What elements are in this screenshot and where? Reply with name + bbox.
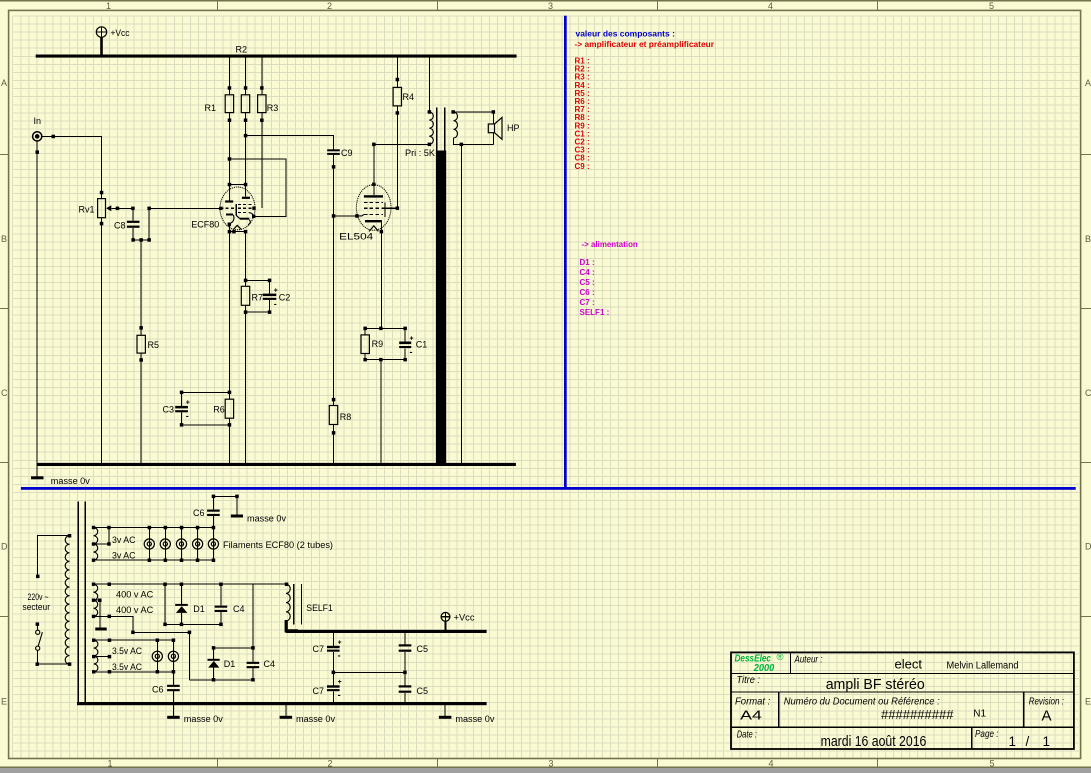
wire secondary top to HP bbox=[453, 112, 493, 124]
B+ thick line bbox=[286, 630, 487, 633]
svg-text:+: + bbox=[410, 335, 414, 342]
svg-text:+: + bbox=[338, 640, 342, 647]
text: alimentation component list bbox=[580, 258, 610, 317]
text 3v AC labels bbox=[112, 535, 136, 561]
wire ECF80 triode cathode down to R6 bbox=[228, 232, 230, 393]
svg-text:masse 0v: masse 0v bbox=[184, 714, 224, 724]
wire R6 bottom to ground bbox=[228, 425, 230, 465]
svg-text:3v AC: 3v AC bbox=[112, 551, 136, 561]
svg-text:+Vcc: +Vcc bbox=[454, 613, 476, 623]
node In connector bbox=[33, 116, 42, 141]
wire C3 R6 top link bbox=[180, 391, 231, 395]
wire Rv1 bottom to ground bbox=[101, 224, 103, 465]
svg-text:3: 3 bbox=[548, 1, 553, 11]
capacitor C5 lower bbox=[399, 685, 428, 703]
svg-text:+: + bbox=[274, 287, 278, 294]
potentiometer Rv1 bbox=[79, 191, 118, 226]
ruler letters right bbox=[1085, 78, 1091, 707]
ground masse 0v supply middle bbox=[280, 705, 336, 724]
svg-text:C3: C3 bbox=[163, 405, 175, 415]
logo DessElec 2000 bbox=[735, 652, 784, 674]
svg-text:R5: R5 bbox=[148, 340, 160, 350]
filament lamps ECF80 bbox=[144, 526, 218, 562]
capacitor C4 lower bbox=[247, 659, 275, 682]
title block Auteur cell bbox=[794, 654, 1019, 672]
ground masse 0v main bbox=[31, 466, 90, 486]
svg-text:C4: C4 bbox=[264, 659, 276, 669]
svg-text:C2: C2 bbox=[279, 293, 291, 303]
svg-text:2: 2 bbox=[327, 759, 332, 769]
capacitor C8 bbox=[114, 208, 140, 240]
transformer T1 primary wire from bus bbox=[428, 58, 432, 114]
capacitor C6 lower bbox=[152, 672, 180, 704]
svg-text:C5 :: C5 : bbox=[580, 278, 595, 287]
text 3.5v AC labels bbox=[112, 646, 142, 672]
svg-text:EL504: EL504 bbox=[339, 232, 373, 242]
ground bus supply section bbox=[77, 702, 487, 705]
ruler ticks right bbox=[1081, 154, 1091, 616]
sheet top edge line bbox=[0, 0, 1091, 2]
tube U1 ECF80 bbox=[191, 185, 255, 232]
svg-text:N1: N1 bbox=[973, 709, 986, 720]
svg-text:mardi 16 août 2016: mardi 16 août 2016 bbox=[821, 734, 927, 750]
svg-text:SELF1 :: SELF1 : bbox=[580, 308, 610, 317]
svg-text:400 v AC: 400 v AC bbox=[116, 605, 154, 615]
svg-text:-> alimentation: -> alimentation bbox=[582, 240, 638, 249]
+Vcc symbol top bbox=[96, 27, 130, 55]
ruler ticks left bbox=[0, 154, 9, 616]
svg-text:elect: elect bbox=[895, 657, 923, 672]
wire rectifier 1 bottom rail bbox=[165, 623, 221, 625]
svg-text:A: A bbox=[1042, 708, 1052, 725]
svg-text:C6 :: C6 : bbox=[580, 288, 595, 297]
svg-text:secteur: secteur bbox=[23, 602, 51, 612]
ruler letters left bbox=[1, 78, 8, 707]
svg-text:3.5v AC: 3.5v AC bbox=[112, 646, 142, 656]
svg-text:B: B bbox=[1, 234, 7, 244]
svg-text:##########: ########## bbox=[881, 707, 954, 722]
svg-text:ampli BF stéréo: ampli BF stéréo bbox=[826, 676, 925, 693]
svg-text:Date :: Date : bbox=[737, 729, 757, 741]
wire speaker return to ground bbox=[460, 144, 462, 464]
switch S1 mains bbox=[36, 622, 43, 650]
svg-text:3v AC: 3v AC bbox=[112, 535, 136, 545]
transformer T1 core bbox=[436, 108, 446, 465]
svg-text:C: C bbox=[1085, 388, 1091, 398]
wire rectifier 2 bottom rail bbox=[189, 679, 253, 681]
svg-text:R4: R4 bbox=[403, 92, 415, 102]
svg-text:C1: C1 bbox=[416, 340, 428, 350]
title block Format cell bbox=[735, 696, 770, 723]
title block frame bbox=[731, 652, 1074, 749]
wire C7 C5 link bbox=[333, 671, 406, 675]
transformer T2 primary coil bbox=[65, 536, 69, 664]
capacitor C5 upper bbox=[399, 633, 428, 685]
svg-text:C4 :: C4 : bbox=[580, 268, 595, 277]
wire triode plate to pentode link bbox=[228, 183, 248, 187]
svg-text:masse 0v: masse 0v bbox=[51, 476, 91, 486]
capacitor C9 bbox=[327, 148, 352, 158]
ground masse 0v supply right bbox=[439, 705, 495, 724]
title block Titre cell bbox=[737, 674, 925, 693]
svg-text:C9: C9 bbox=[341, 148, 353, 158]
svg-text:Numéro du Document ou Référenc: Numéro du Document ou Référence : bbox=[784, 696, 940, 708]
wire ECF80 cathode rail bbox=[228, 230, 248, 234]
text 400v AC labels bbox=[116, 590, 154, 616]
resistor R7 bbox=[241, 286, 263, 314]
wire C2 bottom link bbox=[246, 300, 272, 314]
resistor R3 bbox=[258, 58, 279, 209]
transformer T2 core bbox=[78, 502, 85, 703]
filament lamps EL504 bbox=[152, 639, 178, 674]
capacitor C1 bbox=[399, 328, 427, 359]
svg-text:Melvin Lallemand: Melvin Lallemand bbox=[947, 661, 1019, 672]
svg-text:masse 0v: masse 0v bbox=[455, 714, 495, 724]
transformer T2 winding 400v bbox=[92, 583, 102, 619]
wire mains top bbox=[36, 534, 71, 578]
wire 3v top rail bbox=[94, 526, 214, 530]
svg-text:+: + bbox=[186, 400, 190, 407]
tube U2 EL504 bbox=[339, 183, 397, 242]
svg-text:3: 3 bbox=[548, 759, 553, 769]
svg-text:5: 5 bbox=[989, 1, 994, 11]
wire R9 C1 bottom link bbox=[363, 358, 407, 362]
transformer T1 primary coil bbox=[405, 112, 435, 158]
svg-text:Auteur :: Auteur : bbox=[794, 654, 823, 666]
svg-text:2000: 2000 bbox=[753, 663, 775, 674]
wire 3.5v top rail bbox=[94, 639, 174, 643]
svg-text:-: - bbox=[338, 690, 341, 700]
resistor R9 capacitor C1 top link bbox=[363, 327, 407, 331]
wire Rv1 wiper bbox=[116, 207, 135, 211]
svg-text:C5: C5 bbox=[417, 686, 429, 696]
svg-text:A4: A4 bbox=[740, 708, 762, 723]
svg-text:E: E bbox=[1, 697, 7, 707]
svg-text:R8: R8 bbox=[340, 412, 352, 422]
ground masse 0v near C6 bbox=[231, 496, 287, 523]
ground bus main section bbox=[37, 463, 516, 466]
svg-text:A: A bbox=[1, 78, 7, 88]
svg-text:400 v AC: 400 v AC bbox=[116, 590, 154, 600]
svg-text:In: In bbox=[34, 116, 42, 126]
svg-text:1: 1 bbox=[107, 759, 112, 769]
node 220v secteur label bbox=[23, 592, 51, 612]
svg-text:/: / bbox=[1026, 734, 1030, 749]
ruler numbers bottom bbox=[107, 759, 994, 769]
text: valeur des composants header bbox=[576, 29, 675, 38]
svg-text:HP: HP bbox=[507, 123, 520, 133]
wire ECF80 pentode cathode down to R7 bbox=[244, 232, 248, 287]
svg-text:R7: R7 bbox=[252, 293, 264, 303]
wire EL504 g2 to R4 bbox=[396, 206, 400, 210]
svg-text:Pri : 5K: Pri : 5K bbox=[405, 148, 435, 158]
svg-text:-: - bbox=[274, 299, 277, 309]
svg-text:R9: R9 bbox=[372, 339, 384, 349]
svg-text:C7: C7 bbox=[313, 644, 325, 654]
svg-text:D: D bbox=[1085, 542, 1091, 552]
wire HP bottom bbox=[492, 133, 494, 145]
wire In down to ground bbox=[36, 141, 40, 465]
wire In to Rv1 top bbox=[42, 135, 102, 193]
wire C3 R6 bottom link bbox=[180, 423, 231, 427]
speaker HP bbox=[488, 117, 519, 139]
wire R7 C2 top link bbox=[246, 279, 272, 294]
ground masse 0v supply left bbox=[167, 705, 223, 724]
svg-text:1: 1 bbox=[106, 1, 111, 11]
svg-text:-: - bbox=[338, 651, 341, 661]
svg-text:R1: R1 bbox=[205, 103, 217, 113]
capacitor C7 upper bbox=[313, 633, 342, 685]
svg-text:4: 4 bbox=[768, 759, 773, 769]
svg-text:D1: D1 bbox=[193, 604, 205, 614]
diode D1 upper bbox=[175, 583, 205, 627]
rectifier cell 2 top rail bbox=[212, 646, 255, 650]
svg-text:ECF80: ECF80 bbox=[191, 220, 219, 230]
blue separator vertical bbox=[564, 16, 567, 488]
svg-text:C5: C5 bbox=[417, 644, 429, 654]
+Vcc symbol bottom bbox=[441, 612, 475, 629]
svg-text:C: C bbox=[1, 388, 8, 398]
svg-text:Revision :: Revision : bbox=[1029, 696, 1064, 708]
resistor R8 bbox=[329, 406, 351, 425]
resistor R2 bbox=[236, 45, 250, 185]
svg-text:+Vcc: +Vcc bbox=[111, 28, 130, 38]
title block Revision cell bbox=[1029, 696, 1064, 725]
svg-text:D1 :: D1 : bbox=[580, 258, 595, 267]
capacitor C6 upper bbox=[193, 495, 239, 528]
transformer T2 winding 3.5v bbox=[92, 639, 111, 674]
svg-text:Titre :: Titre : bbox=[737, 674, 761, 686]
svg-text:Rv1: Rv1 bbox=[79, 205, 95, 215]
resistor R4 bbox=[393, 58, 414, 209]
wire mains bottom bbox=[36, 650, 72, 666]
svg-text:1: 1 bbox=[1043, 734, 1051, 749]
transformer T1 secondary coil bbox=[451, 110, 495, 146]
ruler ticks bottom bbox=[217, 759, 877, 768]
svg-text:valeur des composants :: valeur des composants : bbox=[576, 29, 675, 38]
wire 400v bottom rail to rectifier 2 bbox=[94, 615, 192, 680]
text: amplifier component list R1-C9 bbox=[575, 57, 590, 171]
rectifier cell 1 left riser bbox=[163, 583, 167, 627]
svg-text:220v ~: 220v ~ bbox=[28, 592, 49, 602]
wire cathode network to ground bbox=[380, 360, 382, 465]
capacitor C4 lower riser bbox=[252, 584, 254, 662]
svg-text:Format :: Format : bbox=[735, 696, 770, 708]
svg-text:Filaments ECF80 (2 tubes): Filaments ECF80 (2 tubes) bbox=[223, 540, 333, 550]
wire 400v top rail to SELF1 bbox=[94, 583, 287, 587]
svg-text:R6: R6 bbox=[213, 405, 225, 415]
capacitor C7 lower bbox=[313, 679, 342, 703]
text: amplificateur section header bbox=[575, 40, 715, 49]
wire 3.5v bottom rail bbox=[94, 670, 174, 674]
wire C8 bottom link bbox=[131, 207, 151, 242]
svg-text:B: B bbox=[1085, 234, 1091, 244]
sheet bottom gray strip bbox=[0, 768, 1091, 773]
svg-text:5: 5 bbox=[989, 759, 994, 769]
svg-text:4: 4 bbox=[768, 1, 773, 11]
text Filaments ECF80 bbox=[223, 540, 333, 550]
wire 3v bottom rail bbox=[94, 559, 214, 561]
svg-text:-> amplificateur et préamplifi: -> amplificateur et préamplificateur bbox=[575, 40, 715, 49]
svg-text:C7: C7 bbox=[313, 686, 325, 696]
+V bus line bbox=[36, 55, 517, 58]
text: alimentation section header bbox=[582, 240, 638, 249]
resistor R1 bbox=[205, 58, 234, 185]
title block Date cell bbox=[737, 729, 927, 750]
ruler numbers top bbox=[106, 1, 994, 11]
svg-text:masse 0v: masse 0v bbox=[247, 514, 287, 524]
svg-text:+: + bbox=[338, 679, 342, 686]
resistor R5 bbox=[137, 240, 159, 464]
svg-text:C6: C6 bbox=[152, 685, 164, 695]
svg-text:R3: R3 bbox=[267, 103, 279, 113]
wire to EL504 grid bbox=[334, 214, 359, 218]
transformer T2 winding 3v bbox=[92, 526, 111, 562]
resistor R9 bbox=[361, 328, 383, 359]
svg-text:3.5v AC: 3.5v AC bbox=[112, 662, 142, 672]
inductor SELF1 bbox=[285, 583, 333, 631]
wire grid to ECF80 bbox=[149, 207, 220, 209]
capacitor C4 upper bbox=[215, 583, 245, 627]
wire EL504 cathode down bbox=[380, 230, 384, 328]
capacitor C3 bbox=[163, 392, 190, 425]
svg-text:E: E bbox=[1085, 697, 1091, 707]
svg-text:-: - bbox=[410, 347, 413, 357]
svg-text:1: 1 bbox=[1009, 734, 1017, 749]
svg-text:C4: C4 bbox=[233, 604, 245, 614]
svg-text:A: A bbox=[1085, 78, 1091, 88]
wire R7 bottom to ground bbox=[245, 305, 247, 464]
svg-text:C9 :: C9 : bbox=[575, 162, 590, 171]
svg-text:masse 0v: masse 0v bbox=[296, 714, 336, 724]
svg-text:C6: C6 bbox=[193, 508, 205, 518]
title block Numero cell bbox=[784, 696, 987, 723]
svg-text:D: D bbox=[1, 542, 8, 552]
svg-text:-: - bbox=[186, 411, 189, 421]
wire R1 node to pentode g3 loop bbox=[228, 157, 286, 216]
capacitor C2 bbox=[263, 287, 291, 308]
blue separator horizontal bbox=[21, 487, 1076, 490]
svg-text:C8: C8 bbox=[114, 220, 126, 230]
wire C9 down to R8 and ground bbox=[332, 155, 336, 465]
svg-text:D1: D1 bbox=[224, 659, 236, 669]
svg-text:2: 2 bbox=[327, 1, 332, 11]
wire R2 node to C9 bbox=[244, 134, 334, 149]
title block Page cell bbox=[975, 728, 1050, 749]
svg-text:®: ® bbox=[777, 652, 784, 663]
svg-text:R2: R2 bbox=[236, 45, 248, 55]
svg-text:C7 :: C7 : bbox=[580, 298, 595, 307]
wire EL504 plate to transformer bbox=[372, 143, 429, 185]
svg-text:SELF1: SELF1 bbox=[306, 603, 333, 613]
ground of 400v center tap bbox=[95, 600, 106, 630]
diode D1 lower bbox=[208, 648, 236, 682]
svg-text:Page :: Page : bbox=[975, 728, 999, 740]
resistor R6 bbox=[213, 392, 233, 425]
ruler ticks top bbox=[217, 1, 877, 10]
